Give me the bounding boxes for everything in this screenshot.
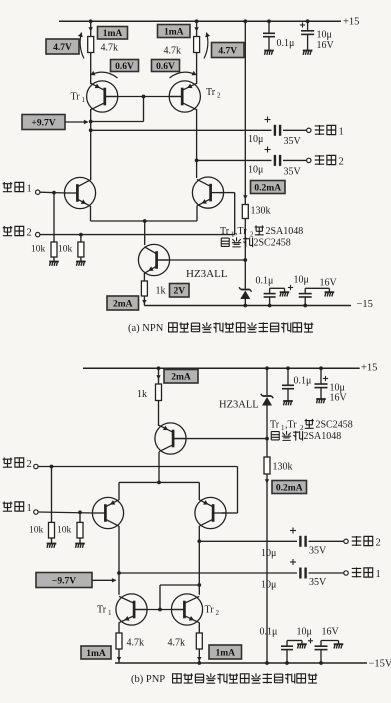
resistor 4.7k (right, b)	[196, 633, 202, 649]
wire +15 rail to 10u (a top)	[307, 21, 309, 31]
wire -15 rail to 10u (b)	[320, 650, 322, 663]
svg-text:4.7V: 4.7V	[218, 46, 237, 56]
svg-text:2: 2	[376, 538, 381, 549]
svg-text:,Tr: ,Tr	[285, 420, 297, 431]
junction common emitter (b)	[157, 481, 161, 485]
value box 2V (a)	[170, 284, 190, 298]
wire 0.1u to ground hook (a)	[270, 288, 285, 293]
resistor 130k (b)	[264, 457, 270, 474]
wire rail to R1	[90, 21, 92, 36]
junction zener/base (a)	[243, 258, 247, 262]
svg-text:,Tr: ,Tr	[235, 226, 247, 237]
svg-text:Tr: Tr	[71, 92, 81, 103]
wire mirror base to Tr2 collector (b)	[160, 585, 199, 610]
node common emitters (b)	[119, 481, 199, 483]
svg-text:10μ: 10μ	[297, 627, 312, 638]
resistor 10k (left, a)	[51, 242, 57, 257]
value box 2mA (b)	[164, 370, 198, 384]
svg-text:Tr: Tr	[205, 605, 215, 616]
svg-text:4.7V: 4.7V	[53, 43, 72, 53]
junction output1 tap (b)	[117, 571, 121, 575]
ground of 10u (a top)	[303, 51, 313, 55]
resistor 10k (right, b)	[77, 522, 83, 538]
terminal input1 (b)	[34, 510, 38, 514]
junction rail/10u (a)	[303, 304, 307, 308]
polarity + output1 cap (b)	[290, 559, 296, 565]
junction mirror bases (b)	[158, 608, 162, 612]
wire diff-left emitter down	[90, 206, 92, 221]
svg-text:2V: 2V	[173, 287, 185, 297]
node output2 line (b)	[199, 540, 297, 542]
wire 10u to ground (a top)	[307, 34, 309, 50]
wire diff-left emitter up (b)	[118, 482, 120, 500]
svg-text:10k: 10k	[29, 526, 44, 536]
svg-text:1mA: 1mA	[215, 648, 235, 658]
wire 4.7k to -15 rail (b right)	[198, 649, 200, 663]
wire Tr2 collector to diff-right collector	[196, 109, 198, 178]
ground of 0.1u (b top)	[283, 401, 293, 405]
svg-text:2SC2458: 2SC2458	[316, 420, 353, 431]
junction common emitter	[143, 219, 147, 223]
svg-text:16V: 16V	[320, 278, 338, 289]
wire input2 to 10k (b left)	[51, 467, 53, 523]
node output1 line (b)	[119, 572, 297, 574]
svg-text:Tr: Tr	[206, 87, 216, 98]
terminal input2	[36, 232, 40, 236]
junction rail/R2	[195, 19, 199, 23]
polarity + output1 cap	[265, 117, 271, 123]
junction rail/10u (b)	[319, 661, 323, 665]
node input1 line	[40, 191, 66, 194]
wire 10u to ground hook (b)	[321, 641, 339, 647]
wire +15 rail to 0.1u (a top)	[268, 21, 270, 33]
wire source base to zener node (b)	[174, 438, 268, 440]
wire 10k-2 to ground	[80, 257, 82, 262]
capacitor 10u 16V (b top)	[315, 384, 328, 388]
svg-text:2: 2	[217, 92, 221, 100]
transistor Tr1 (PNP 2SA1048)	[87, 81, 118, 112]
transistor Tr2 (NPN 2SC2458) (b)	[171, 594, 202, 625]
transistor diff-right (NPN 2SC2458)	[192, 177, 223, 208]
svg-text:2mA: 2mA	[171, 373, 191, 383]
transistor Tr2 (PNP 2SA1048)	[169, 81, 200, 112]
caption (a) CJK	[169, 322, 314, 332]
svg-text:1: 1	[339, 127, 344, 138]
transistor Tr1 (NPN 2SC2458) (b)	[116, 594, 147, 625]
svg-text:0.1μ: 0.1μ	[294, 376, 312, 387]
node input1 line (b)	[38, 512, 93, 513]
ground of 10u (b top)	[316, 399, 326, 403]
junction rail/zener (a)	[243, 304, 247, 308]
pointer arrow +9.7V	[65, 120, 89, 124]
ground of 10u (b bottom)	[334, 644, 344, 648]
svg-text:(a) NPN: (a) NPN	[128, 323, 164, 334]
svg-text:10k: 10k	[31, 245, 46, 255]
svg-text:35V: 35V	[309, 546, 327, 557]
junction rail/0.1u (a)	[268, 304, 272, 308]
voltage arrow 4.7V (right)	[204, 33, 210, 59]
svg-text:10μ: 10μ	[261, 580, 276, 591]
svg-text:+15: +15	[343, 17, 359, 28]
current arrow 2mA (a)	[142, 300, 146, 304]
capacitor output2 10u 35V	[275, 155, 280, 166]
junction mirror bases	[142, 95, 146, 99]
wire 10k-1 to ground	[53, 257, 55, 262]
node +15V rail (circuit a)	[59, 20, 341, 22]
wire 10k-1 to ground (b)	[51, 538, 53, 543]
svg-text:2: 2	[339, 157, 344, 168]
wire 0.1u to ground (a top)	[268, 37, 270, 50]
capacitor 0.1u (a top)	[263, 33, 275, 36]
wire sink base to zener node	[157, 259, 245, 261]
svg-text:130k: 130k	[273, 462, 293, 473]
svg-text:16V: 16V	[322, 627, 340, 638]
node common emitters	[91, 220, 198, 222]
wire 0.1u to ground hook (b)	[287, 641, 302, 647]
wire cap to output1 terminal	[283, 129, 307, 131]
svg-text:0.6V: 0.6V	[156, 62, 175, 72]
svg-text:1k: 1k	[137, 389, 147, 400]
junction 10k-2 tap (b)	[78, 511, 82, 515]
junction rail/0.1u (b)	[285, 661, 289, 665]
node -15V rail (circuit a)	[144, 305, 351, 307]
current arrow 1mA (b left)	[117, 657, 121, 661]
wire diff-right collector down (b)	[198, 526, 200, 595]
pointer arrow -9.7V	[92, 578, 117, 582]
svg-text:0.1μ: 0.1μ	[260, 627, 278, 638]
junction base tie on collector line	[89, 120, 93, 124]
capacitor 0.1u (b top)	[282, 385, 294, 388]
transistor current source (PNP 2SA1048)	[155, 423, 186, 454]
wire Tr1 base to Tr2 base	[106, 96, 182, 98]
current arrow 0.2mA (a)	[243, 195, 247, 199]
wire R2 to Tr2 emitter	[196, 53, 198, 85]
voltage arrow 4.7V (left)	[78, 33, 84, 59]
value box 0.2mA (b)	[272, 481, 307, 494]
node label box +9.7V	[22, 115, 65, 130]
voltage arrow 0.6V over Tr2	[170, 71, 197, 78]
resistor R1 4.7k	[88, 37, 94, 53]
value box 0.2mA (a)	[251, 181, 286, 194]
terminal input1	[36, 190, 40, 194]
svg-text:1: 1	[27, 503, 32, 514]
wire 4.7k to -15 rail (b left)	[118, 649, 120, 663]
ground of 0.1u (a bottom)	[280, 292, 290, 296]
note CJK wei (b)	[305, 419, 314, 428]
label output2 (b CJK)	[352, 536, 373, 546]
wire Tr2 emitter to 4.7k (b)	[198, 623, 200, 634]
svg-text:2: 2	[27, 459, 32, 470]
junction rail/10u top (a)	[306, 19, 310, 23]
svg-text:0.6V: 0.6V	[115, 62, 134, 72]
svg-text:+15: +15	[361, 363, 377, 374]
junction rail/0.1u top (b)	[286, 366, 290, 370]
capacitor 0.1u (a bottom)	[264, 294, 276, 297]
wire diff-right base to input2 line (b)	[222, 512, 238, 514]
wire 130k down to -15 rail (b)	[266, 474, 268, 663]
value box 1mA (right)	[158, 25, 191, 38]
svg-text:0.2mA: 0.2mA	[254, 183, 281, 193]
wire cap to output2 terminal	[283, 159, 307, 161]
wire 1k to -15 rail	[143, 296, 145, 306]
svg-text:10μ: 10μ	[248, 134, 263, 145]
wire cap to output2 terminal (b)	[309, 540, 344, 542]
wire -15 rail to 10u (a)	[304, 297, 306, 305]
resistor 10k (left, b)	[49, 522, 55, 538]
svg-text:HZ3ALL: HZ3ALL	[186, 268, 228, 280]
svg-text:−15: −15	[357, 299, 373, 310]
junction base tie on Tr2 collector (b)	[197, 583, 201, 587]
value box 4.7V (left)	[46, 39, 79, 54]
wire +15 rail to 0.1u (b top)	[287, 368, 289, 385]
wire Tr1 emitter to 4.7k (b)	[118, 623, 120, 634]
polarity + output2 cap	[265, 147, 271, 153]
node output2 line	[197, 159, 272, 161]
wire rail to R2	[196, 21, 198, 36]
node output1 line	[91, 129, 272, 131]
svg-text:1: 1	[82, 96, 86, 104]
svg-text:4.7k: 4.7k	[101, 43, 119, 54]
capacitor output1 10u 35V	[275, 125, 280, 136]
terminal output1 (b)	[344, 571, 348, 575]
current arrow 1mA (b right)	[197, 657, 201, 661]
resistor 1k (a)	[141, 281, 147, 296]
wire diff-right emitter up (b)	[198, 482, 200, 500]
svg-text:16V: 16V	[317, 40, 335, 51]
label input2 (b CJK)	[3, 457, 24, 467]
junction rail/130k	[243, 19, 247, 23]
label output1 (b CJK)	[352, 567, 373, 577]
resistor 1k (b)	[156, 384, 162, 401]
value box 4.7V (right)	[212, 43, 245, 58]
junction output2 tap (b)	[197, 539, 201, 543]
svg-text:130k: 130k	[251, 206, 271, 217]
svg-text:1mA: 1mA	[103, 29, 123, 39]
wire 130k to zener node	[244, 219, 246, 289]
transistor diff-right (PNP 2SA1048) (b)	[195, 497, 226, 528]
ground below 10k-2	[76, 262, 86, 266]
svg-text:2: 2	[216, 609, 220, 617]
wire zener to base node (b)	[266, 406, 268, 458]
svg-text:4.7k: 4.7k	[164, 46, 182, 57]
note line2 CJK qitawei (b)	[271, 431, 302, 441]
ground below 10k-1 (b)	[47, 544, 57, 548]
svg-text:4.7k: 4.7k	[168, 638, 186, 649]
junction rail/R1	[89, 19, 93, 23]
svg-text:Tr: Tr	[220, 226, 230, 237]
svg-text:Tr: Tr	[270, 420, 280, 431]
node -15V rail (circuit b)	[115, 662, 367, 664]
svg-text:−15V: −15V	[369, 659, 391, 670]
wire sink emitter to 1k	[143, 273, 145, 281]
svg-text:4.7k: 4.7k	[127, 638, 145, 649]
svg-text:1: 1	[376, 569, 381, 580]
node label box -9.7V	[36, 573, 92, 588]
junction rail bottom/zener chain (b)	[265, 661, 269, 665]
wire input1 to 10k (b right)	[79, 512, 81, 522]
junction rail/1k (b)	[157, 366, 161, 370]
svg-text:Tr: Tr	[97, 605, 107, 616]
polarity + 10u (a bottom)	[288, 285, 293, 290]
polarity + 10u (a top)	[300, 22, 305, 27]
wire zener to -15 rail	[244, 299, 246, 306]
svg-text:1k: 1k	[156, 286, 166, 297]
resistor 130k (a)	[242, 205, 248, 219]
ground of 10u (a bottom)	[325, 292, 335, 296]
voltage arrow 0.6V over Tr1	[91, 71, 118, 78]
svg-text:35V: 35V	[284, 136, 302, 147]
svg-text:10k: 10k	[58, 245, 73, 255]
transistor diff-left (NPN 2SC2458)	[64, 177, 95, 208]
resistor R2 4.7k	[194, 37, 200, 53]
svg-text:1mA: 1mA	[86, 649, 106, 659]
value box 2mA (a)	[107, 296, 139, 310]
terminal output1	[307, 128, 311, 132]
svg-text:1: 1	[108, 609, 112, 617]
wire diff-right emitter down	[196, 206, 198, 221]
label input2 (CJK)	[3, 226, 24, 236]
polarity + 10u (b bottom)	[308, 638, 313, 643]
wire rail to zener (b)	[266, 368, 268, 395]
svg-text:35V: 35V	[284, 167, 302, 178]
wire 0.1u to ground (b top)	[287, 389, 289, 401]
svg-text:0.1μ: 0.1μ	[256, 276, 274, 287]
svg-text:10μ: 10μ	[294, 275, 309, 286]
node +15V rail (circuit b)	[83, 367, 360, 369]
transistor current sink (NPN 2SC2458)	[138, 244, 169, 275]
value box 0.6V (right)	[152, 60, 180, 72]
capacitor 0.1u (b bottom)	[281, 646, 293, 649]
resistor 4.7k (left, b)	[116, 633, 122, 649]
svg-text:HZ3ALL: HZ3ALL	[219, 400, 259, 411]
junction output2 tap	[195, 159, 199, 163]
wire input1 to 10k-1	[53, 193, 55, 242]
svg-text:2: 2	[27, 228, 32, 239]
capacitor 10u 16V (a top)	[301, 31, 314, 35]
wire -15 rail to 0.1u (a)	[269, 297, 271, 305]
current arrow 0.2mA (b)	[265, 479, 269, 483]
zener diode HZ3ALL (b)	[261, 394, 274, 406]
value box 1mA (b left)	[81, 646, 111, 659]
polarity + output2 cap (b)	[290, 528, 296, 534]
wire rail to 130k	[244, 21, 246, 204]
junction 10k-2 tap	[79, 233, 83, 237]
zener diode HZ3ALL (a)	[239, 287, 252, 299]
current arrow into R1 (1mA)	[89, 27, 93, 31]
current arrow into R2 (1mA)	[194, 27, 198, 31]
note line2 CJK qitawei (a)	[221, 237, 252, 247]
svg-text:2SA1048: 2SA1048	[304, 431, 342, 442]
svg-text:10μ: 10μ	[317, 30, 332, 41]
svg-text:+9.7V: +9.7V	[31, 118, 55, 128]
wire -15 rail to 0.1u (b)	[286, 650, 288, 663]
wire 1k to source emitter (b)	[158, 401, 160, 427]
svg-text:10μ: 10μ	[261, 548, 276, 559]
value box 1mA (b right)	[209, 645, 242, 659]
wire +15 rail to 10u (b top)	[320, 368, 322, 384]
terminal input2 (b)	[34, 464, 38, 468]
wire Tr1 collector to diff-left collector	[90, 109, 92, 180]
label output2 (CJK)	[315, 155, 336, 165]
wire rail to 1k (b)	[158, 368, 160, 384]
note CJK wei (a)	[255, 225, 264, 234]
transistor diff-left (PNP 2SA1048) (b)	[92, 497, 123, 528]
svg-text:2SC2458: 2SC2458	[254, 238, 291, 249]
svg-text:0.1μ: 0.1μ	[277, 38, 295, 49]
wire source collector down (b)	[158, 452, 160, 482]
ground of 0.1u (a top)	[264, 51, 274, 55]
junction rail/zener (b)	[265, 366, 269, 370]
svg-text:2SA1048: 2SA1048	[266, 226, 304, 237]
svg-text:(b) PNP: (b) PNP	[131, 674, 165, 685]
caption (b) CJK	[173, 673, 318, 683]
ground below 10k-2 (b)	[75, 544, 85, 548]
junction rail/4.7k right (b)	[197, 661, 201, 665]
current arrow 2mA (b)	[156, 375, 160, 379]
wire mirror base to Tr1 collector node	[91, 97, 144, 122]
wire diff-left collector down (b)	[118, 526, 120, 595]
svg-text:2mA: 2mA	[113, 299, 133, 309]
node input2 line	[40, 234, 235, 236]
capacitor 10u 16V (b bottom)	[315, 646, 328, 649]
svg-text:10k: 10k	[57, 526, 72, 536]
junction rail/10u top (b)	[319, 366, 323, 370]
label output1 (CJK)	[315, 125, 336, 135]
wire R1 to Tr1 emitter	[90, 53, 92, 85]
ground below 10k-1	[49, 262, 59, 266]
svg-text:0.2mA: 0.2mA	[276, 483, 303, 493]
svg-text:−9.7V: −9.7V	[52, 576, 76, 586]
svg-text:35V: 35V	[309, 577, 327, 588]
wire common emitter to sink collector	[144, 221, 146, 245]
node input2 line (b)	[38, 467, 237, 514]
terminal output2 (b)	[344, 539, 348, 543]
wire cap to output1 terminal (b)	[309, 572, 344, 574]
label input1 (CJK)	[3, 182, 24, 192]
wire input2 to 10k-2	[80, 235, 82, 242]
wire Tr1 base to Tr2 base (b)	[135, 609, 184, 611]
junction rail/0.1u top (a)	[267, 19, 271, 23]
wire diff-right base loop to input2	[219, 193, 235, 235]
svg-text:1: 1	[27, 184, 32, 195]
junction 10k-1 tap	[52, 191, 56, 195]
value box 1mA (left)	[98, 27, 128, 40]
wire 10k-2 to ground (b)	[79, 538, 81, 543]
junction 10k-1 tap (b)	[50, 465, 54, 469]
wire 10u to ground hook (a)	[305, 288, 329, 293]
capacitor 10u 16V (a bottom)	[299, 294, 312, 297]
value box 0.6V (left)	[111, 60, 139, 72]
capacitor output1 10u 35V (b)	[300, 568, 305, 579]
ground of 0.1u (b bottom)	[297, 644, 307, 648]
resistor 10k (right, a)	[78, 242, 84, 257]
svg-text:10μ: 10μ	[248, 165, 263, 176]
polarity + 10u (b top)	[323, 376, 328, 381]
capacitor output2 10u 35V (b)	[300, 536, 305, 547]
wire 10u to ground (b top)	[320, 388, 322, 399]
junction output1 tap	[89, 128, 93, 132]
terminal output2	[307, 158, 311, 162]
svg-text:16V: 16V	[330, 393, 348, 404]
label input1 (b CJK)	[3, 501, 24, 511]
svg-text:1mA: 1mA	[164, 27, 184, 37]
junction zener/base (b)	[265, 437, 269, 441]
